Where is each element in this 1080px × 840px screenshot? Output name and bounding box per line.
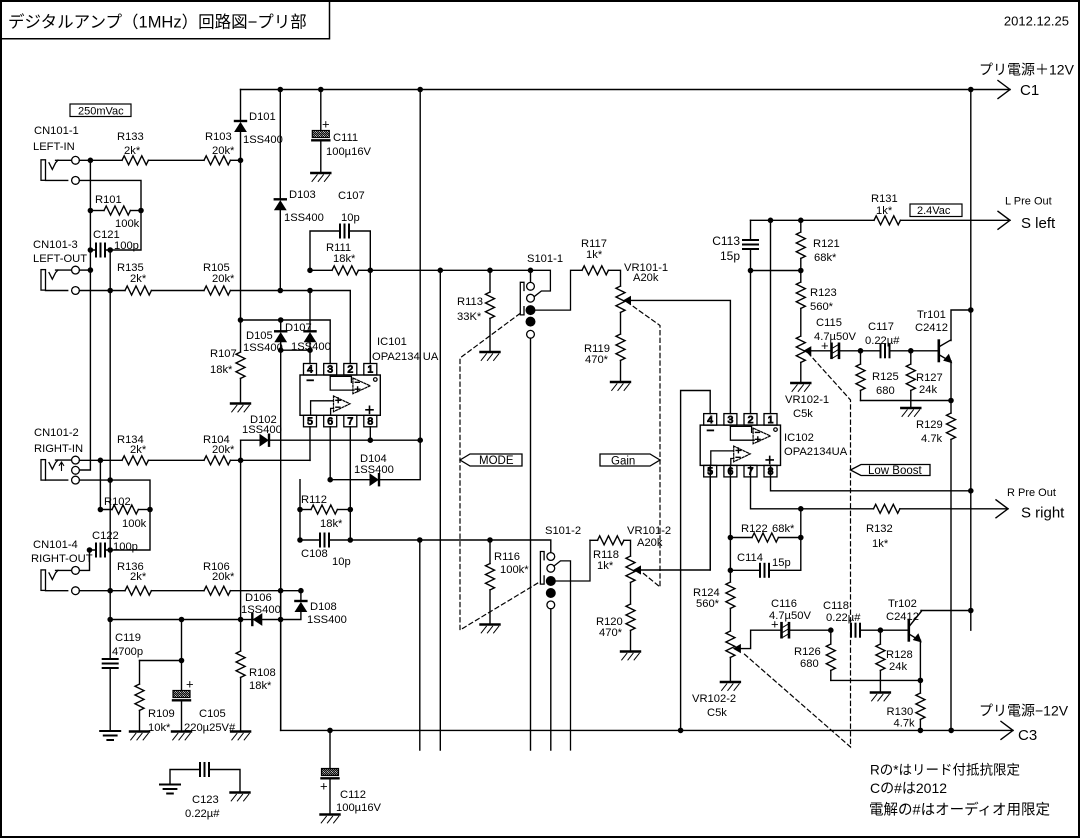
wire IC102 pin4 V- to rail — [681, 391, 711, 731]
connector CN101-4 RIGHT-OUT jack — [41, 570, 46, 591]
svg-text:R122: R122 — [741, 523, 768, 535]
wire R105 to IC101 in — [230, 290, 310, 292]
svg-text:LEFT-IN: LEFT-IN — [33, 141, 75, 153]
wire LEFT-IN to R133 — [79, 159, 122, 161]
potentiometer VR101-1 A20k — [608, 270, 620, 286]
svg-text:15p: 15p — [772, 557, 791, 569]
ground C111 — [311, 172, 330, 174]
svg-text:+: + — [771, 617, 779, 632]
op-amp IC101 OPA2134UA — [300, 364, 380, 428]
wire IC101 pin5 to input node — [309, 427, 311, 461]
resistor R112 18k* — [300, 509, 311, 511]
svg-text:18k*: 18k* — [333, 253, 356, 265]
wire left bus x90 — [79, 160, 90, 470]
svg-text:18k*: 18k* — [320, 518, 343, 530]
svg-text:D106: D106 — [245, 592, 272, 604]
svg-text:R109: R109 — [148, 708, 175, 720]
wire +12V top rail — [241, 89, 1011, 91]
connector CN101-3 LEFT-OUT jack — [41, 270, 46, 291]
wire IC101 pin7 riser — [349, 427, 351, 540]
svg-text:Low Boost: Low Boost — [868, 465, 923, 477]
wire R136-R106 — [151, 590, 204, 592]
diode D108 1SS400 — [300, 591, 302, 601]
svg-text:1SS400: 1SS400 — [307, 614, 347, 626]
wire R104 to pin5 riser — [230, 459, 310, 461]
svg-text:R128: R128 — [886, 649, 913, 661]
svg-text:1SS400: 1SS400 — [242, 424, 282, 436]
wire -12V bottom rail — [281, 729, 1013, 731]
svg-text:C114: C114 — [737, 552, 763, 564]
resistor R135 2k* — [125, 286, 151, 295]
svg-text:S101-1: S101-1 — [527, 253, 563, 265]
title text — [8, 12, 307, 32]
svg-text:20k*: 20k* — [212, 444, 235, 456]
wire IC101 out y270 to S101-1 — [370, 269, 530, 271]
wire +12V drop x420 — [380, 90, 421, 480]
svg-text:1k*: 1k* — [876, 205, 893, 217]
svg-text:250mVac: 250mVac — [78, 106, 124, 118]
wire send bus x440 — [439, 270, 441, 750]
svg-text:OPA2134UA: OPA2134UA — [784, 446, 848, 458]
node CN101-2 terminals — [46, 460, 72, 480]
ground VR102-2 — [721, 681, 740, 683]
svg-text:68k*: 68k* — [814, 252, 837, 264]
svg-text:R132: R132 — [866, 523, 893, 535]
svg-text:C1: C1 — [1020, 82, 1039, 99]
dashed link Low Boost pot gang — [743, 353, 851, 747]
wire C113 to IC102 pin2 — [750, 271, 752, 414]
svg-text:0.22µ#: 0.22µ# — [826, 612, 861, 624]
svg-text:VR102-1: VR102-1 — [785, 394, 829, 406]
resistor R129 4.7k — [950, 401, 952, 414]
resistor R106 20k* — [204, 586, 230, 595]
svg-text:2k*: 2k* — [124, 145, 141, 157]
svg-text:1k*: 1k* — [586, 249, 603, 261]
ground R109 — [130, 730, 149, 732]
svg-text:2: 2 — [748, 414, 754, 426]
svg-text:100k*: 100k* — [500, 564, 529, 576]
svg-text:R127: R127 — [916, 372, 943, 384]
wire IC102 pin8 V+ — [771, 465, 971, 490]
svg-text:CN101-4: CN101-4 — [33, 539, 78, 551]
wire R133-R103 — [148, 159, 204, 161]
wire IC101 pin8 stub — [369, 427, 371, 440]
svg-text:20k*: 20k* — [212, 145, 235, 157]
svg-text:+: + — [821, 338, 829, 353]
svg-text:CN101-1: CN101-1 — [34, 125, 79, 137]
capacitor C111 100u16V — [320, 90, 322, 131]
svg-text:3: 3 — [327, 364, 333, 376]
node S right arrow — [996, 500, 1008, 518]
ground C123 earth — [160, 784, 180, 786]
svg-text:C113: C113 — [712, 234, 740, 248]
capacitor C119 4700p — [109, 620, 111, 660]
resistor R133 2k* — [122, 156, 148, 165]
svg-text:R130: R130 — [887, 706, 914, 718]
wire D105 anode bus down — [280, 350, 282, 730]
svg-text:R102: R102 — [104, 496, 131, 508]
svg-text:C118: C118 — [823, 600, 849, 612]
ground R128 — [871, 691, 890, 693]
svg-text:デジタルアンプ（1MHz）回路図−プリ部: デジタルアンプ（1MHz）回路図−プリ部 — [8, 12, 307, 32]
diode D101 1SS400 — [240, 90, 242, 122]
svg-text:560*: 560* — [696, 598, 720, 610]
switch S101-2 — [545, 525, 581, 537]
resistor R126 680 — [830, 630, 832, 644]
wire R106 to D108 — [230, 590, 301, 592]
svg-text:10k*: 10k* — [148, 722, 171, 734]
ground C123 right — [231, 791, 250, 793]
svg-text:C115: C115 — [816, 317, 842, 329]
wire +12V right rail — [970, 90, 972, 631]
title box — [1, 1, 330, 39]
wire signal y540 to S101-2 — [350, 540, 551, 552]
svg-text:1k*: 1k* — [597, 560, 614, 572]
svg-text:C112: C112 — [340, 789, 366, 801]
resistor R120 470* — [630, 582, 632, 604]
wire emitter y400 — [861, 400, 952, 402]
svg-text:5: 5 — [307, 416, 313, 428]
resistor R113 33K* — [489, 270, 491, 292]
wire CN101-3 tip to bus — [79, 269, 90, 271]
svg-text:4700p: 4700p — [112, 646, 143, 658]
wire diode anodes to pin4 — [281, 342, 310, 350]
resistor R116 100k* — [489, 540, 491, 564]
resistor R101 100k — [90, 210, 104, 212]
capacitor C122 100p — [95, 544, 97, 557]
capacitor C116 4.7u50V — [780, 623, 783, 637]
wire R134-R104 — [148, 459, 204, 461]
potentiometer VR102-2 C5k — [726, 631, 735, 657]
wire R121-R123 node — [751, 270, 801, 272]
diode D105 1SS400 — [280, 320, 282, 331]
svg-text:C119: C119 — [115, 632, 141, 644]
svg-text:+: + — [186, 677, 194, 692]
svg-text:1SS400: 1SS400 — [284, 212, 324, 224]
capacitor C123 0.22u# — [170, 770, 200, 784]
wire R126 to emitter y680 — [831, 679, 921, 681]
svg-text:R103: R103 — [205, 131, 232, 143]
svg-text:C123: C123 — [192, 794, 219, 806]
diode D102 1SS400 — [241, 439, 260, 441]
svg-text:IC102: IC102 — [784, 432, 814, 444]
dashed link Gain pot gang — [627, 302, 660, 587]
wire left bus x110 — [109, 250, 111, 620]
flag MODE — [460, 454, 522, 466]
node CN101-1 terminals — [46, 160, 72, 180]
wire IC102 pin7 out y508 — [751, 465, 874, 508]
svg-text:R101: R101 — [95, 194, 122, 206]
svg-text:2: 2 — [347, 364, 353, 376]
svg-text:R113: R113 — [457, 296, 483, 308]
resistor R118 1k* — [590, 539, 598, 541]
wire ground-return bus x280 — [280, 591, 282, 731]
resistor R124 560* — [726, 582, 735, 608]
wire CN101-3 out to R135 — [79, 290, 125, 292]
capacitor C107 10p — [310, 231, 340, 270]
svg-text:R116: R116 — [494, 551, 520, 563]
wire V+ feed y440 — [270, 439, 421, 441]
wire D104 to R112 — [299, 480, 301, 540]
svg-text:1SS400: 1SS400 — [243, 134, 283, 146]
wire L out y220 — [751, 219, 875, 221]
ground C119 earth — [100, 730, 120, 732]
svg-text:4.7k: 4.7k — [921, 433, 943, 445]
dashed link MODE switch gang — [460, 314, 540, 631]
svg-text:R133: R133 — [117, 131, 144, 143]
label 2.4Vac — [910, 204, 962, 217]
capacitor C105 220u25V# — [181, 661, 183, 691]
svg-text:C5k: C5k — [707, 707, 727, 719]
wire filter y619 — [110, 619, 240, 621]
svg-text:プリ電源−12V: プリ電源−12V — [979, 703, 1069, 719]
svg-text:電解の#はオーディオ用限定: 電解の#はオーディオ用限定 — [869, 801, 1050, 819]
wire IC101 pin2 jog — [310, 291, 350, 364]
ground R119 — [611, 381, 630, 383]
wire IC102 pin1 riser — [770, 220, 772, 413]
svg-text:D103: D103 — [289, 189, 316, 201]
flag Low Boost — [851, 465, 931, 476]
svg-text:C108: C108 — [301, 548, 328, 560]
svg-text:3: 3 — [727, 414, 733, 426]
svg-text:R107: R107 — [210, 348, 237, 360]
svg-text:100p: 100p — [113, 541, 138, 553]
svg-text:Rの*はリード付抵抗限定: Rの*はリード付抵抗限定 — [870, 763, 1020, 778]
wire jack1 sleeve loop — [79, 180, 141, 250]
resistor R136 2k* — [125, 586, 151, 595]
svg-text:4: 4 — [307, 364, 313, 376]
potentiometer VR101-2 A20k — [626, 556, 635, 582]
resistor R132 1k* — [874, 504, 900, 513]
svg-text:VR101-2: VR101-2 — [627, 525, 671, 537]
svg-text:S right: S right — [1021, 505, 1065, 522]
wire R102 left riser — [100, 460, 112, 509]
resistor R102 100k — [112, 505, 138, 514]
svg-text:LEFT-OUT: LEFT-OUT — [33, 253, 87, 265]
svg-text:4: 4 — [707, 414, 713, 426]
svg-text:24k: 24k — [919, 384, 937, 396]
ground C112 — [321, 813, 340, 815]
svg-text:15p: 15p — [720, 249, 740, 263]
svg-text:680: 680 — [876, 385, 895, 397]
svg-text:470*: 470* — [585, 354, 609, 366]
wire IC102 pin6 riser — [729, 465, 731, 582]
diode D103 1SS400 — [279, 90, 281, 200]
wire IC101 pin1 riser — [369, 270, 371, 363]
ground VR102-1 — [791, 382, 810, 384]
transistor Tr102 C2412 — [880, 611, 970, 681]
ground R120 — [621, 650, 640, 652]
svg-text:+: + — [320, 779, 328, 794]
svg-text:R112: R112 — [301, 494, 327, 506]
svg-text:OPA2134 UA: OPA2134 UA — [372, 351, 439, 363]
svg-text:4.7k: 4.7k — [894, 718, 916, 730]
connector CN101-1 LEFT-IN jack — [41, 160, 46, 181]
svg-text:A20k: A20k — [637, 537, 663, 549]
svg-text:20k*: 20k* — [212, 571, 235, 583]
diode D107 1SS400 — [309, 291, 311, 332]
resistor R108 18k* — [240, 620, 242, 652]
svg-text:Tr101: Tr101 — [917, 309, 946, 321]
wire D102 node drop x240 — [240, 440, 242, 619]
wire R103 to D101 node — [230, 159, 240, 161]
svg-text:0.22µ#: 0.22µ# — [185, 808, 220, 820]
svg-text:C105: C105 — [199, 708, 226, 720]
svg-text:100µ16V: 100µ16V — [336, 802, 382, 814]
svg-text:100k: 100k — [122, 518, 147, 530]
svg-text:18k*: 18k* — [249, 680, 272, 692]
resistor R104 20k* — [204, 456, 230, 465]
svg-text:R121: R121 — [813, 238, 840, 250]
diode D104 1SS400 — [370, 474, 378, 485]
resistor R105 20k* — [204, 286, 230, 295]
node CN101-4 terminals — [46, 570, 72, 590]
resistor R117 1k* — [582, 266, 608, 275]
svg-text:Gain: Gain — [611, 456, 635, 468]
svg-text:2k*: 2k* — [130, 444, 147, 456]
svg-text:C116: C116 — [771, 598, 797, 610]
svg-text:20k*: 20k* — [212, 273, 235, 285]
wire S left out — [900, 219, 1010, 221]
wire IC102 pin5 riser — [709, 465, 711, 570]
capacitor C118 0.22u# — [850, 624, 852, 637]
svg-text:IC101: IC101 — [377, 336, 407, 348]
flag Gain — [600, 454, 660, 466]
ground R127 — [901, 407, 920, 409]
svg-text:1k*: 1k* — [872, 538, 889, 550]
svg-text:680: 680 — [800, 658, 819, 670]
svg-text:VR102-2: VR102-2 — [692, 693, 736, 705]
svg-text:Cの#は2012: Cの#は2012 — [870, 780, 947, 796]
svg-text:2k*: 2k* — [130, 571, 147, 583]
capacitor C115 4.7u50V — [830, 344, 833, 358]
ground C105 — [172, 730, 191, 732]
svg-text:R108: R108 — [249, 667, 276, 679]
potentiometer VR102-1 C5k — [796, 336, 805, 362]
capacitor C117 0.22u# — [861, 350, 881, 352]
wire C105 branch — [140, 620, 182, 661]
node S left arrow — [998, 211, 1010, 229]
resistor R119 470* — [620, 312, 622, 334]
svg-text:R129: R129 — [916, 419, 943, 431]
svg-text:C111: C111 — [333, 132, 358, 144]
svg-text:Tr102: Tr102 — [888, 598, 917, 610]
svg-text:10p: 10p — [341, 212, 360, 224]
svg-text:2012.12.25: 2012.12.25 — [1004, 14, 1069, 29]
resistor R134 2k* — [122, 456, 148, 465]
svg-text:R131: R131 — [871, 193, 898, 205]
svg-text:R125: R125 — [872, 371, 899, 383]
capacitor C121 100p — [95, 244, 97, 257]
resistor R127 24k — [910, 351, 912, 364]
resistor R111 18k* — [310, 269, 332, 271]
capacitor C114 15p — [730, 569, 760, 571]
wire RIGHT-OUT to R136 — [79, 590, 125, 592]
svg-text:100µ16V: 100µ16V — [326, 146, 372, 158]
svg-text:10p: 10p — [332, 556, 351, 568]
svg-text:RIGHT-IN: RIGHT-IN — [34, 443, 83, 455]
svg-text:1: 1 — [367, 364, 373, 376]
svg-text:560*: 560* — [810, 301, 834, 313]
svg-text:2k*: 2k* — [130, 273, 147, 285]
svg-text:C5k: C5k — [793, 408, 813, 420]
notes text — [870, 763, 1020, 778]
wire R135-R105 — [151, 290, 204, 292]
resistor R125 680 — [860, 351, 862, 364]
svg-text:CN101-2: CN101-2 — [34, 427, 79, 439]
capacitor C113 15p — [750, 220, 752, 240]
svg-text:MODE: MODE — [479, 455, 514, 467]
diode D106 1SS400 — [241, 619, 253, 621]
transistor Tr101 C2412 — [911, 310, 971, 401]
connector CN101-2 RIGHT-IN jack — [41, 460, 46, 481]
svg-text:1SS400: 1SS400 — [243, 342, 283, 354]
resistor R121 68k* — [800, 220, 802, 232]
wire R122 node to pin7 wire — [800, 509, 802, 538]
wire stub x420 bottom — [419, 540, 421, 750]
svg-text:L Pre Out: L Pre Out — [1005, 196, 1052, 208]
svg-text:D108: D108 — [310, 601, 337, 613]
svg-text:470*: 470* — [599, 627, 623, 639]
node C1 +12V output arrow — [998, 81, 1010, 99]
ground R108 — [231, 730, 250, 732]
resistor R107 18k* — [240, 320, 242, 352]
capacitor C108 10p — [300, 539, 320, 541]
label 250mVac — [70, 104, 131, 117]
svg-text:C3: C3 — [1018, 727, 1037, 744]
wire S right out — [900, 508, 1008, 510]
resistor R130 4.7k — [919, 680, 921, 693]
ground R113 — [481, 351, 500, 353]
svg-text:6: 6 — [327, 416, 333, 428]
wire IC101 pin6 stub — [329, 427, 331, 480]
svg-text:RIGHT-OUT: RIGHT-OUT — [31, 553, 93, 565]
svg-text:CN101-3: CN101-3 — [33, 239, 78, 251]
svg-text:S left: S left — [1021, 215, 1056, 232]
svg-text:1SS400: 1SS400 — [241, 604, 281, 616]
svg-text:100p: 100p — [114, 240, 139, 252]
svg-text:S101-2: S101-2 — [545, 525, 581, 537]
svg-text:1SS400: 1SS400 — [354, 464, 394, 476]
capacitor C112 100u16V — [329, 730, 331, 768]
svg-text:1: 1 — [768, 414, 774, 426]
svg-text:18k*: 18k* — [210, 364, 233, 376]
wire RIGHT-IN to R134 — [79, 459, 122, 461]
svg-text:D105: D105 — [246, 330, 273, 342]
svg-text:R126: R126 — [794, 646, 821, 658]
label IC101 — [377, 336, 407, 348]
svg-text:D101: D101 — [249, 111, 276, 123]
switch S101-1 — [527, 253, 563, 265]
resistor R123 560* — [796, 282, 805, 308]
svg-text:D107: D107 — [285, 322, 312, 334]
resistor R103 20k* — [204, 156, 230, 165]
op-amp IC102 OPA2134UA — [700, 414, 780, 478]
svg-text:+: + — [322, 117, 330, 132]
node C3 -12V output arrow — [1001, 721, 1013, 739]
svg-text:プリ電源＋12V: プリ電源＋12V — [979, 62, 1075, 78]
wire node to IC101 pin3 — [241, 320, 331, 364]
svg-text:R Pre Out: R Pre Out — [1007, 487, 1056, 499]
svg-text:C107: C107 — [338, 190, 365, 202]
date — [1004, 14, 1069, 29]
svg-text:R123: R123 — [810, 287, 837, 299]
svg-text:0.22µ#: 0.22µ# — [865, 335, 900, 347]
resistor R122 68k* — [730, 537, 752, 539]
svg-text:33K*: 33K* — [457, 311, 482, 323]
svg-text:C2412: C2412 — [915, 322, 948, 334]
svg-text:7: 7 — [347, 416, 353, 428]
